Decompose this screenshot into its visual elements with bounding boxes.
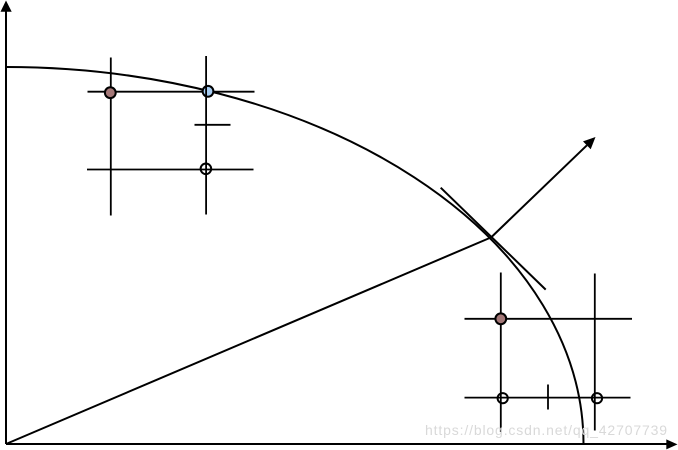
open point P6	[592, 393, 602, 403]
tangent segment	[441, 188, 546, 290]
gradient arrow	[491, 137, 596, 238]
watermark	[425, 422, 668, 438]
y axis	[1, 1, 12, 445]
brown point P1	[105, 87, 116, 98]
vertical line V1	[110, 58, 112, 216]
horizontal line H1	[88, 91, 255, 93]
open point P5	[498, 393, 508, 403]
vertical line V2	[205, 56, 207, 215]
tick T2	[547, 385, 549, 410]
horizontal line H2	[87, 169, 254, 171]
x axis	[6, 439, 678, 449]
tick T1	[195, 124, 231, 126]
horizontal line H3	[465, 318, 633, 320]
brown point P4	[495, 313, 506, 324]
open point P3	[201, 164, 212, 175]
ray from origin	[6, 237, 492, 444]
curve (ellipse quadrant)	[6, 67, 584, 444]
vertical line V4	[594, 274, 596, 431]
vertical line V3	[500, 273, 502, 433]
blue point P2	[203, 86, 214, 97]
horizontal line H4	[465, 397, 631, 399]
